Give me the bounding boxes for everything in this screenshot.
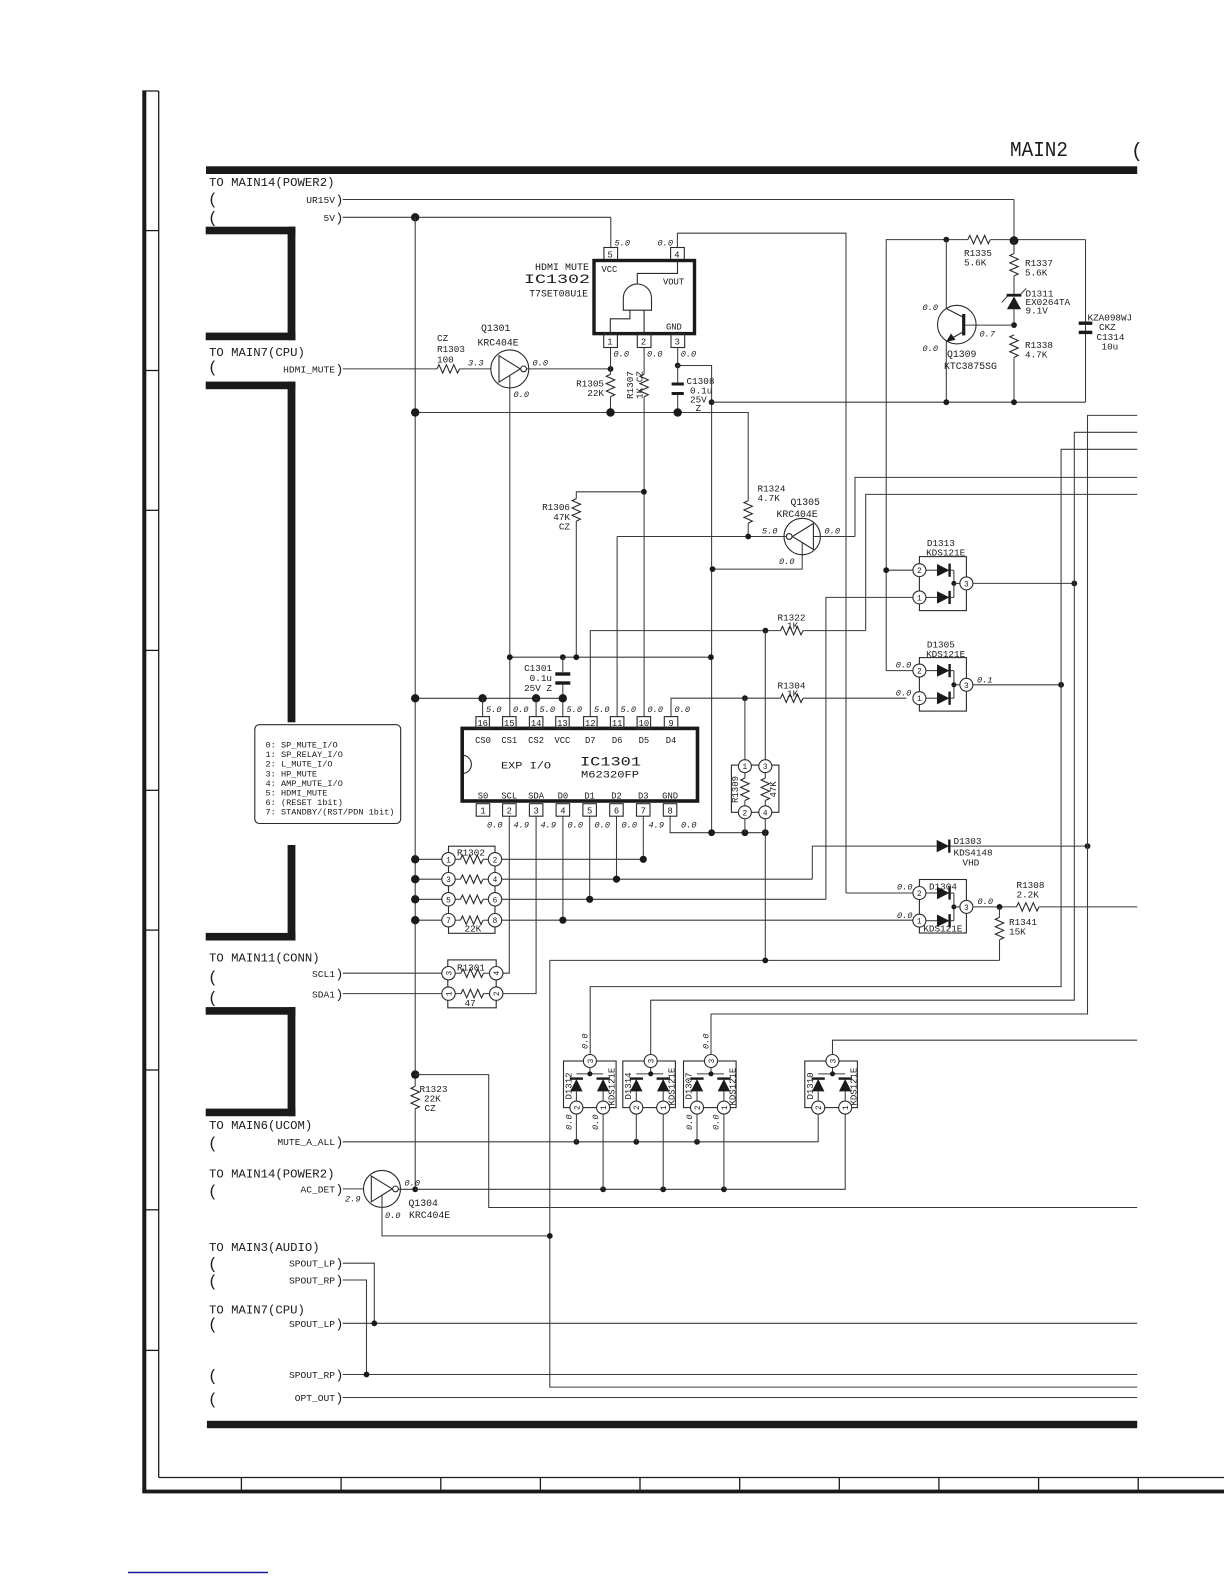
diode pack D1313 KDS121E <box>913 557 973 611</box>
diode pack D1304 KDS121E <box>913 880 973 934</box>
svg-text:0.0: 0.0 <box>487 821 502 831</box>
svg-text:1: 1 <box>917 595 922 603</box>
svg-text:0.0: 0.0 <box>614 350 629 360</box>
node Q1309 emitter / rail <box>943 399 949 405</box>
svg-text:25V Z: 25V Z <box>524 683 552 694</box>
svg-text:3: HP_MUTE: 3: HP_MUTE <box>266 769 318 779</box>
svg-text:4: 4 <box>763 810 768 818</box>
svg-text:VCC: VCC <box>554 736 570 746</box>
svg-text:): ) <box>336 1135 344 1150</box>
svg-text:Q1301: Q1301 <box>481 323 511 334</box>
svg-text:0.0: 0.0 <box>681 821 696 831</box>
svg-text:D6: D6 <box>612 736 623 746</box>
wire R1309 pin3 up to R1322 net <box>764 631 766 760</box>
svg-text:): ) <box>336 1391 344 1406</box>
svg-text:EXP I/O: EXP I/O <box>501 761 551 772</box>
svg-text:5.0: 5.0 <box>594 705 609 715</box>
svg-text:): ) <box>336 362 344 377</box>
svg-text:CZ: CZ <box>437 333 449 344</box>
node 5V rail junctions <box>411 408 419 416</box>
wire IC1301 pin5 D1 net <box>589 816 591 899</box>
svg-text:2: 2 <box>917 669 922 677</box>
wire 5V drop to IC1302 pin5 <box>610 217 612 247</box>
svg-text:15K: 15K <box>1009 927 1026 938</box>
wire bus1 vertical <box>590 449 1137 1054</box>
svg-text:0.0: 0.0 <box>681 350 696 360</box>
wire 5V rail lower <box>415 413 748 501</box>
svg-text:0.0: 0.0 <box>896 689 911 699</box>
wire D1307 pin2 to MUTE line <box>696 1114 698 1142</box>
svg-text:0.0: 0.0 <box>923 344 938 354</box>
svg-text:D4: D4 <box>666 736 677 746</box>
resistor R1338 4.7K <box>1010 335 1018 402</box>
svg-text:R1301: R1301 <box>457 963 485 974</box>
svg-text:(: ( <box>208 1183 218 1201</box>
wire D1305 pin3 to bus1 <box>973 684 1061 686</box>
svg-text:4.9: 4.9 <box>541 821 556 831</box>
wire bus3 vertical <box>711 415 1137 1054</box>
svg-text:(: ( <box>208 1256 218 1274</box>
node IC1302 pin3 / C1308 <box>675 363 681 369</box>
wire IC1301 pin11 stub <box>616 537 618 717</box>
svg-text:SPOUT_LP: SPOUT_LP <box>289 1259 335 1270</box>
connector bracket MAIN7(CPU) tall <box>206 382 296 941</box>
node GND rail junctions <box>708 829 715 836</box>
svg-text:KDS121E: KDS121E <box>850 1068 860 1106</box>
svg-text:5.0: 5.0 <box>486 705 501 715</box>
svg-text:2.9: 2.9 <box>345 1195 360 1205</box>
svg-text:VOUT: VOUT <box>663 278 684 288</box>
svg-text:0.0: 0.0 <box>897 911 912 921</box>
wire D1314 pin1 to Q1304 line <box>662 1114 664 1189</box>
svg-text:5: 5 <box>446 897 451 905</box>
diode D1303 KDS4148 VHD <box>812 840 1090 880</box>
signal names <box>277 195 335 1404</box>
capacitor C1308 0.1u 25V Z <box>672 366 684 413</box>
svg-text:D1303: D1303 <box>954 836 982 847</box>
wire R1302 row D2 to D1303 <box>502 878 813 880</box>
svg-text:TO MAIN6(UCOM): TO MAIN6(UCOM) <box>209 1119 312 1133</box>
svg-text:3: 3 <box>964 905 969 913</box>
svg-text:22K: 22K <box>587 388 604 399</box>
svg-text:0.0: 0.0 <box>658 239 673 249</box>
svg-text:0.0: 0.0 <box>591 1115 601 1130</box>
wire UR15V <box>343 199 1014 201</box>
svg-text:(: ( <box>208 1316 218 1334</box>
wire IC1301 pin14 stub <box>535 698 537 716</box>
wire R1323 top branch to AC_DET pull line <box>415 1075 1137 1208</box>
svg-text:1: 1 <box>743 764 748 772</box>
wire right leg of Q1309 block <box>1085 240 1087 403</box>
svg-text:2: 2 <box>641 338 646 348</box>
svg-text:14: 14 <box>531 719 542 729</box>
svg-text:CZ: CZ <box>559 522 571 533</box>
svg-text:0.0: 0.0 <box>675 705 690 715</box>
svg-text:0.0: 0.0 <box>514 390 529 400</box>
svg-text:KDS121E: KDS121E <box>926 649 965 660</box>
resistor R1305 22K <box>606 369 614 413</box>
svg-text:): ) <box>336 1274 344 1289</box>
diode pack D1307 KDS121E <box>684 1055 739 1115</box>
wire C1308/GND link to Q1309 bottom rail <box>678 366 712 833</box>
svg-text:VHD: VHD <box>963 858 980 869</box>
svg-text:5V: 5V <box>323 213 335 224</box>
wire bus2 vertical <box>651 432 1137 1054</box>
wire IC1301 pin9 net to R1304 <box>671 698 781 716</box>
wire SPOUT_LP(AUDIO) <box>343 1263 375 1323</box>
svg-text:SCL: SCL <box>501 792 517 802</box>
wire D1312 pin1 to Q1304 line <box>602 1114 604 1189</box>
node R1306 / R1307 net <box>641 489 647 495</box>
wire IC1301 pin12 net <box>590 631 780 717</box>
wire AC_DET <box>343 1188 364 1190</box>
svg-text:5.6K: 5.6K <box>1025 268 1048 279</box>
svg-text:UR15V: UR15V <box>306 195 335 206</box>
svg-text:0.0: 0.0 <box>405 1179 420 1189</box>
svg-text:47K: 47K <box>769 781 779 798</box>
svg-text:2: L_MUTE_I/O: 2: L_MUTE_I/O <box>266 760 333 770</box>
svg-text:): ) <box>336 987 344 1002</box>
svg-text:CS0: CS0 <box>475 736 491 746</box>
IC1301 top pin boxes <box>476 705 690 729</box>
svg-text:GND: GND <box>666 323 682 333</box>
wire SPOUT_RP(AUDIO) <box>343 1280 367 1375</box>
svg-text:KDS121E: KDS121E <box>926 547 965 558</box>
wire R1302 row D3 <box>502 858 644 860</box>
svg-text:GND: GND <box>662 792 678 802</box>
svg-text:D1314: D1314 <box>624 1072 634 1099</box>
wire IC1301 pin2 SCL net <box>503 816 509 973</box>
svg-text:TO MAIN14(POWER2): TO MAIN14(POWER2) <box>209 176 334 190</box>
resistor network R1301 47 <box>442 960 503 1009</box>
node pin9 net / R1309 pin1 <box>742 695 748 701</box>
svg-text:7: STANDBY/(RST/PDN 1bit): 7: STANDBY/(RST/PDN 1bit) <box>266 808 395 818</box>
svg-text:0.1: 0.1 <box>977 676 992 686</box>
svg-text:MUTE_A_ALL: MUTE_A_ALL <box>277 1137 335 1148</box>
svg-text:D1: D1 <box>584 792 595 802</box>
connector bracket MAIN11(CONN) <box>206 1007 296 1116</box>
wire IC1301 pin16 stub <box>482 698 484 716</box>
svg-text:2: 2 <box>695 1105 703 1110</box>
wire D1313 pin3 to bus2 <box>973 582 1074 584</box>
svg-text:3: 3 <box>830 1058 838 1063</box>
svg-text:3: 3 <box>588 1058 596 1063</box>
wire SCL1 <box>343 972 442 974</box>
svg-text:5.6K: 5.6K <box>964 258 987 269</box>
node R1338 / rail <box>1011 399 1017 405</box>
capacitor C1301 0.1u 25V Z <box>555 657 570 716</box>
wire IC1301 pin4 D0 net <box>562 816 564 920</box>
svg-text:5.0: 5.0 <box>540 705 555 715</box>
svg-text:KRC404E: KRC404E <box>777 509 818 520</box>
resistor R1308 2.2K <box>1017 903 1138 911</box>
svg-text:): ) <box>336 1317 344 1332</box>
svg-text:4: 4 <box>493 877 498 885</box>
svg-text:KDS121E: KDS121E <box>728 1068 738 1106</box>
svg-text:2: 2 <box>917 568 922 576</box>
resistor R1341 15K <box>995 907 1003 961</box>
svg-text:16: 16 <box>477 719 488 729</box>
svg-text:R1302: R1302 <box>457 848 485 859</box>
svg-text:0.0: 0.0 <box>825 527 840 537</box>
svg-text:4: 4 <box>560 807 565 817</box>
svg-text:4.9: 4.9 <box>514 821 529 831</box>
transistor Q1305 KRC404E inverter <box>617 518 855 569</box>
svg-text:4.9: 4.9 <box>649 821 664 831</box>
svg-text:(: ( <box>208 1135 218 1153</box>
wire SPOUT_RP(CPU) <box>343 1374 1137 1376</box>
svg-text:R1303: R1303 <box>437 344 465 355</box>
svg-text:SPOUT_RP: SPOUT_RP <box>289 1370 335 1381</box>
svg-text:HDMI_MUTE: HDMI_MUTE <box>283 364 335 375</box>
svg-text:3: 3 <box>964 581 969 589</box>
svg-text:IC1301: IC1301 <box>580 755 641 770</box>
wire R1322 to right edge <box>866 494 1137 630</box>
svg-text:): ) <box>336 1257 344 1272</box>
resistor R1307 1K CZ <box>640 374 648 716</box>
node 5V junction <box>411 213 419 221</box>
wire Q1305 input up and to right edge <box>855 477 1137 536</box>
svg-text:0.0: 0.0 <box>385 1211 400 1221</box>
node Q1309 base / D1311 / R1338 <box>1011 322 1017 328</box>
resistor R1335 5.6K <box>968 235 991 243</box>
wire Q1309 bottom rail <box>712 401 1086 403</box>
svg-text:Q1309: Q1309 <box>947 349 977 360</box>
svg-text:D0: D0 <box>558 792 569 802</box>
svg-text:D3: D3 <box>638 792 649 802</box>
wire R1302 feeds from 5V column <box>415 858 442 860</box>
svg-text:4: 4 <box>494 971 502 976</box>
svg-text:M62320FP: M62320FP <box>581 770 639 781</box>
svg-text:): ) <box>336 211 344 226</box>
svg-text:0.0: 0.0 <box>595 821 610 831</box>
transistor Q1304 KRC404E inverter <box>364 1170 550 1236</box>
svg-text:(: ( <box>208 359 218 377</box>
svg-text:OPT_OUT: OPT_OUT <box>295 1393 336 1404</box>
blue revision underline <box>128 1572 268 1574</box>
resistor R1323 22K CZ <box>411 1086 419 1189</box>
svg-text:0.0: 0.0 <box>897 883 912 893</box>
svg-text:0.0: 0.0 <box>647 350 662 360</box>
svg-text:): ) <box>336 193 344 208</box>
svg-text:2: 2 <box>494 991 502 996</box>
svg-text:6: 6 <box>614 807 619 817</box>
IC1301 M62320FP body <box>462 728 697 801</box>
wire D1312 pin2 to MUTE line <box>575 1114 577 1142</box>
svg-text:SDA: SDA <box>528 792 545 802</box>
svg-text:D1310: D1310 <box>806 1072 816 1099</box>
svg-text:1: 1 <box>446 991 454 996</box>
wire UR15V drop to R1335/R1337 node <box>1013 200 1015 241</box>
svg-text:2: 2 <box>743 810 748 818</box>
svg-text:10: 10 <box>639 719 650 729</box>
svg-text:D1307: D1307 <box>685 1072 695 1099</box>
node R1323 top tee <box>411 1070 419 1078</box>
svg-text:6: (RESET 1bit): 6: (RESET 1bit) <box>266 798 343 808</box>
node GND link <box>709 399 715 405</box>
svg-text:(: ( <box>208 210 218 228</box>
wire D1313 pin1 leg down to D1 row <box>826 597 913 899</box>
wire 5V vertical distribution x=415 <box>414 217 416 1086</box>
svg-text:(: ( <box>1131 141 1143 164</box>
transistor Q1301 KRC404E inverter <box>491 350 611 717</box>
zener D1311 EX0264TA 9.1V <box>1002 288 1026 325</box>
svg-text:12: 12 <box>585 719 596 729</box>
svg-text:3: 3 <box>763 764 768 772</box>
wire Q1304 output line to D1310 pin1 <box>415 1114 845 1189</box>
node VCC rail junctions <box>411 694 419 702</box>
resistor R1306 47K CZ <box>572 492 644 657</box>
svg-text:3: 3 <box>533 807 538 817</box>
svg-text:VCC: VCC <box>602 265 618 275</box>
svg-text:3.3: 3.3 <box>468 359 483 369</box>
wire IC1302 pin3 to C1308 node <box>677 348 679 366</box>
svg-text:2: 2 <box>574 1105 582 1110</box>
svg-text:9: 9 <box>668 719 673 729</box>
svg-text:1: 1 <box>480 807 485 817</box>
svg-text:0.0: 0.0 <box>712 1115 722 1130</box>
diode pack D1312 KDS121E <box>564 1055 618 1115</box>
svg-text:3: 3 <box>446 971 454 976</box>
svg-text:5.0: 5.0 <box>621 705 636 715</box>
svg-text:S0: S0 <box>478 792 489 802</box>
node MUTE_A_ALL taps <box>574 1139 580 1145</box>
svg-text:KDS121E: KDS121E <box>923 924 962 935</box>
svg-text:Q1305: Q1305 <box>791 497 821 508</box>
svg-text:1: 1 <box>607 338 612 348</box>
svg-text:(: ( <box>208 191 218 209</box>
wire GND rail drop <box>764 833 766 961</box>
resistor R1303 <box>437 365 491 373</box>
node Q1309 collector tap <box>943 237 949 243</box>
svg-text:10u: 10u <box>1102 342 1119 353</box>
svg-text:(: ( <box>208 1391 218 1409</box>
svg-text:0.0: 0.0 <box>923 303 938 313</box>
wire D1304 pin3 to R1308/R1341 node <box>973 906 1017 908</box>
wire HDMI_MUTE <box>343 368 437 370</box>
svg-text:CZ: CZ <box>425 1103 437 1114</box>
svg-text:1: 1 <box>917 919 922 927</box>
transistor Q1309 KTC3875SG <box>938 240 1015 403</box>
wire SPOUT_LP(CPU) <box>343 1322 1137 1324</box>
svg-text:0.0: 0.0 <box>622 821 637 831</box>
resistor R1337 5.6K <box>1010 241 1018 295</box>
bottom border bar <box>207 1421 1137 1428</box>
svg-text:22K: 22K <box>465 924 482 935</box>
node R1324 / Q1305 output <box>745 534 751 540</box>
svg-text:0.0: 0.0 <box>568 821 583 831</box>
svg-text:D7: D7 <box>585 736 596 746</box>
resistor network R1302 22K <box>442 846 502 934</box>
wire top rail of Q1309 block <box>886 240 968 671</box>
svg-text:0.0: 0.0 <box>779 557 794 567</box>
svg-text:5.0: 5.0 <box>615 239 630 249</box>
svg-text:SDA1: SDA1 <box>312 989 335 1000</box>
svg-text:TO MAIN7(CPU): TO MAIN7(CPU) <box>209 346 305 360</box>
svg-text:2: 2 <box>493 857 498 865</box>
node UR15V / R1335 / R1337 <box>1010 236 1019 245</box>
capacitor C1314 10u KZA098WJ CKZ <box>1079 323 1093 332</box>
svg-text:0.0: 0.0 <box>565 1115 575 1130</box>
svg-text:0.0: 0.0 <box>648 705 663 715</box>
wire IC1301 pin8 GND net <box>670 816 765 833</box>
node Q1304 emitter / GND column <box>547 1233 553 1239</box>
svg-text:TO MAIN11(CONN): TO MAIN11(CONN) <box>209 952 320 966</box>
svg-text:D1312: D1312 <box>565 1072 575 1099</box>
IC1301 bottom pin boxes <box>476 804 696 831</box>
svg-text:0.0: 0.0 <box>896 661 911 671</box>
wire IC1301 pin7 D3 net <box>642 816 644 859</box>
svg-text:15: 15 <box>504 719 515 729</box>
svg-text:0: SP_MUTE_I/O: 0: SP_MUTE_I/O <box>266 741 338 751</box>
connector headers <box>209 176 334 1318</box>
wire IC1302 pin2 to R1307 <box>643 348 645 375</box>
svg-text:CS1: CS1 <box>501 736 517 746</box>
page frame bottom ruler <box>142 1478 1224 1494</box>
svg-text:(: ( <box>208 969 218 987</box>
svg-text:): ) <box>336 1368 344 1383</box>
wire D1305 pin2 to Q1309 leg corner <box>886 670 913 672</box>
wire IC1302 pin4 net to right column <box>677 233 846 893</box>
top border bar <box>206 166 1137 174</box>
svg-text:D5: D5 <box>639 736 650 746</box>
node Q1304 line taps <box>600 1186 606 1192</box>
node R1322 / R1309 pin3 <box>763 628 769 634</box>
wire D1307 pin1 to Q1304 line <box>723 1114 725 1189</box>
svg-text:D2: D2 <box>611 792 622 802</box>
resistor network R1309 47K <box>731 760 779 819</box>
svg-text:2.2K: 2.2K <box>1017 890 1040 901</box>
svg-text:2: 2 <box>507 807 512 817</box>
wire IC1302 pin1 to node <box>610 348 612 369</box>
svg-text:2: 2 <box>634 1105 642 1110</box>
svg-text:7: 7 <box>641 807 646 817</box>
wire SDA1 <box>343 993 442 995</box>
wire R1309 pins 2,4 to GND rail <box>744 819 746 833</box>
svg-text:1K CZ: 1K CZ <box>635 371 646 399</box>
wire D1313 pin2 to Q1309 block leg <box>886 569 913 571</box>
node Q1305 emitter to GND column <box>710 566 716 572</box>
svg-text:11: 11 <box>612 719 623 729</box>
node Q1304 out / R1323 <box>412 1186 418 1192</box>
svg-text:0.0: 0.0 <box>513 705 528 715</box>
wire IC1301 pin3 SDA net <box>503 816 536 993</box>
svg-text:4.7K: 4.7K <box>1025 350 1048 361</box>
svg-text:KDS121E: KDS121E <box>668 1068 678 1106</box>
svg-text:9.1V: 9.1V <box>1026 306 1049 317</box>
svg-text:5.0: 5.0 <box>762 527 777 537</box>
svg-text:0.0: 0.0 <box>685 1115 695 1130</box>
diode pack D1310 KDS121E <box>805 1055 860 1115</box>
svg-text:47: 47 <box>465 998 476 1009</box>
svg-text:7: 7 <box>446 918 451 926</box>
svg-text:3: 3 <box>675 338 680 348</box>
svg-text:1: SP_RELAY_I/O: 1: SP_RELAY_I/O <box>266 750 343 760</box>
svg-text:0.0: 0.0 <box>978 897 993 907</box>
svg-text:5.0: 5.0 <box>567 705 582 715</box>
svg-text:KRC404E: KRC404E <box>409 1210 450 1221</box>
svg-text:KTC3875SG: KTC3875SG <box>944 361 997 372</box>
svg-text:KDS121E: KDS121E <box>608 1068 618 1106</box>
node Q1301 out / R1305 / IC1302 pin1 <box>608 366 614 372</box>
svg-text:100: 100 <box>437 355 454 366</box>
IO legend box <box>255 725 401 824</box>
svg-text:0.0: 0.0 <box>581 1034 591 1049</box>
svg-text:6: 6 <box>493 897 498 905</box>
wire D1304 pin2 to IC1302 pin4 column <box>846 892 913 894</box>
page frame left ruler <box>142 91 158 1492</box>
svg-text:1: 1 <box>446 857 451 865</box>
